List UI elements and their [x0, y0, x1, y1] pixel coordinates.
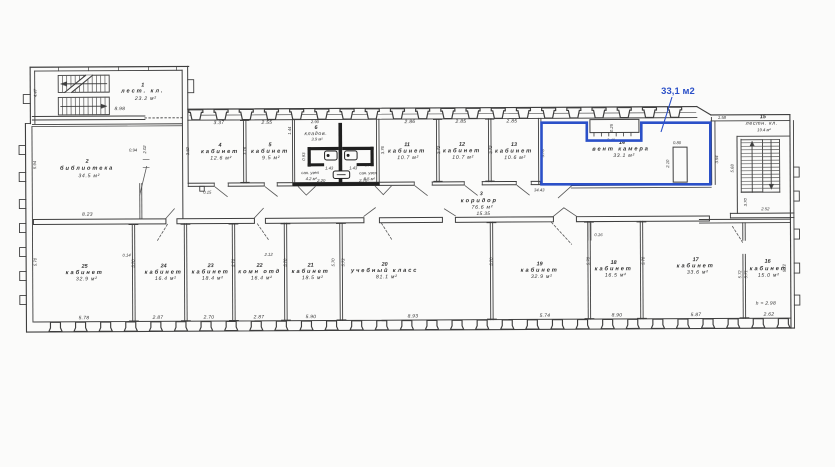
svg-text:2.70: 2.70 [203, 315, 215, 321]
svg-text:18.4 м²: 18.4 м² [202, 276, 224, 282]
svg-text:кабинет: кабинет [251, 148, 289, 155]
top wall right step [697, 106, 711, 115]
stair block 15 bottom wall [730, 212, 793, 214]
svg-text:5.72: 5.72 [782, 263, 787, 272]
svg-text:коридор: коридор [461, 198, 498, 204]
svg-text:кабинет: кабинет [192, 268, 230, 275]
svg-text:5.71: 5.71 [743, 270, 748, 278]
svg-text:8.23: 8.23 [82, 212, 93, 218]
corridor south wall segments [33, 219, 166, 225]
svg-text:34.5 м²: 34.5 м² [78, 173, 100, 179]
svg-text:0.15: 0.15 [203, 190, 212, 195]
svg-text:24: 24 [160, 263, 167, 269]
right rooms top wall [699, 218, 790, 220]
san block bottom thick wall [293, 182, 380, 186]
svg-text:5.74: 5.74 [540, 313, 551, 319]
svg-text:2.52: 2.52 [760, 206, 770, 211]
svg-text:h = 2.98: h = 2.98 [756, 301, 776, 307]
svg-text:3: 3 [480, 191, 483, 197]
stair block 15 west wall [736, 136, 738, 213]
svg-text:кабинет: кабинет [495, 147, 533, 154]
svg-text:2.02: 2.02 [142, 145, 147, 155]
svg-text:0.80: 0.80 [673, 140, 682, 145]
svg-text:5.94: 5.94 [32, 160, 37, 169]
svg-text:3.72: 3.72 [488, 145, 493, 154]
svg-text:5.70: 5.70 [131, 259, 136, 268]
svg-text:20: 20 [381, 262, 388, 268]
svg-text:3.76: 3.76 [242, 146, 247, 155]
south wall door diagonals [166, 209, 175, 219]
svg-text:2.87: 2.87 [152, 315, 164, 321]
library closet door [140, 166, 147, 195]
right outer wall [790, 115, 791, 328]
svg-text:2.85: 2.85 [506, 118, 518, 124]
vent chamber niche box [590, 119, 639, 132]
top room door swings [215, 187, 227, 197]
blue vent chamber outline [542, 123, 711, 185]
svg-text:8.98: 8.98 [114, 106, 125, 112]
partition rooms 4/5 [242, 120, 244, 183]
small pier below wall [200, 186, 205, 191]
svg-text:18: 18 [611, 260, 617, 266]
svg-text:11: 11 [404, 142, 410, 148]
svg-text:2.70: 2.70 [358, 178, 368, 183]
svg-text:23: 23 [207, 263, 214, 269]
svg-text:библиотека: библиотека [60, 165, 114, 172]
svg-text:33.6 м²: 33.6 м² [687, 270, 709, 276]
bottom wall outer line [27, 328, 794, 332]
svg-text:0.25: 0.25 [609, 123, 614, 132]
svg-text:5.70: 5.70 [586, 256, 591, 265]
svg-text:3.9 м²: 3.9 м² [311, 137, 323, 142]
svg-text:1.43: 1.43 [349, 165, 358, 170]
svg-text:5.68: 5.68 [730, 164, 735, 173]
vent chamber column [673, 147, 687, 182]
san uzel door swings [298, 187, 315, 196]
svg-text:12.6 м²: 12.6 м² [210, 155, 232, 161]
stairs room1 lower flight [58, 97, 109, 115]
svg-text:комн отд: комн отд [238, 269, 281, 275]
left wall window notch (stair block) [23, 95, 30, 104]
top-left block right wall [181, 70, 184, 221]
svg-text:32.9 м²: 32.9 м² [531, 274, 553, 280]
library closet partition [139, 183, 141, 218]
svg-text:4.47: 4.47 [33, 88, 38, 97]
main top wall piers [189, 110, 203, 120]
partition rooms 12/13 [487, 119, 489, 182]
svg-text:3.82: 3.82 [185, 146, 190, 155]
svg-text:2.85: 2.85 [455, 119, 467, 125]
left wall window notches [19, 146, 26, 155]
svg-text:сан. узел: сан. узел [359, 170, 377, 175]
sink room 7 [325, 151, 338, 160]
svg-text:кабинет: кабинет [443, 147, 481, 154]
partition room13/vent chamber [537, 118, 539, 184]
svg-text:13: 13 [511, 142, 517, 148]
svg-text:2.20: 2.20 [316, 178, 326, 183]
svg-text:1.44: 1.44 [287, 126, 292, 135]
svg-text:2.55: 2.55 [261, 120, 273, 126]
svg-text:1.43: 1.43 [325, 165, 334, 170]
svg-text:2.87: 2.87 [253, 314, 265, 320]
san block west wall [291, 120, 293, 186]
svg-text:3.94: 3.94 [714, 155, 719, 164]
partition rooms 11/12 [435, 119, 437, 182]
stair block 15 stair top wall [737, 135, 790, 137]
svg-text:22: 22 [256, 263, 263, 269]
svg-text:кабинет: кабинет [595, 265, 633, 272]
svg-text:12: 12 [459, 142, 465, 148]
bottom wall piers [49, 322, 62, 331]
stairs 15 up arrow [751, 143, 753, 192]
svg-text:9.5 м²: 9.5 м² [262, 155, 280, 161]
main top wall inner line [188, 118, 697, 121]
svg-text:5.90: 5.90 [306, 314, 317, 320]
svg-text:4: 4 [218, 143, 222, 149]
svg-text:10.7 м²: 10.7 м² [452, 155, 474, 161]
svg-text:5.87: 5.87 [691, 312, 702, 318]
svg-text:25: 25 [81, 264, 89, 270]
stairs upper flight break band [65, 75, 93, 92]
small jamb marks [587, 223, 589, 240]
svg-text:кабинет: кабинет [292, 268, 330, 275]
main top wall outer line [188, 107, 697, 110]
svg-text:5.70: 5.70 [489, 257, 494, 266]
san block east wall [375, 119, 377, 185]
svg-text:19.4 м²: 19.4 м² [757, 127, 771, 132]
svg-text:16: 16 [765, 259, 772, 265]
stair room 1 bottom wall [32, 115, 144, 118]
svg-text:15: 15 [760, 114, 767, 120]
svg-text:кабинет: кабинет [677, 262, 715, 269]
double door mark room19 [553, 208, 576, 217]
svg-text:2.10: 2.10 [665, 159, 670, 169]
svg-text:кабинет: кабинет [66, 269, 104, 276]
svg-text:16.5 м²: 16.5 м² [605, 273, 627, 279]
svg-text:33.1 м²: 33.1 м² [613, 153, 635, 159]
svg-text:5.72: 5.72 [341, 258, 346, 267]
svg-text:16.4 м²: 16.4 м² [155, 276, 177, 282]
main top wall window lines [190, 113, 696, 116]
bottom partitions [131, 224, 134, 321]
svg-text:5.70: 5.70 [33, 257, 38, 266]
lower center sink [333, 171, 350, 179]
svg-text:кабинет: кабинет [201, 148, 239, 155]
svg-text:1.58: 1.58 [718, 115, 727, 120]
stairs upper flight arrow [63, 83, 107, 85]
svg-text:3.72: 3.72 [436, 145, 441, 154]
svg-text:5.72: 5.72 [737, 270, 742, 279]
library top wall [32, 123, 182, 126]
bottom wall inner line [34, 318, 791, 322]
svg-text:кабинет: кабинет [388, 147, 426, 154]
svg-text:0.16: 0.16 [594, 232, 603, 237]
left outer wall upper (stair block, inset) [29, 67, 31, 123]
svg-text:5.70: 5.70 [641, 256, 646, 265]
svg-text:5.70: 5.70 [331, 258, 336, 267]
kladovaya bottom / stall top thick wall [308, 147, 339, 150]
svg-text:19: 19 [537, 261, 543, 267]
svg-text:3.37: 3.37 [214, 120, 225, 126]
stairs 15 down arrow [770, 140, 772, 187]
right wall window notches [794, 167, 800, 177]
san block center thick wall [338, 123, 342, 186]
svg-text:3.76: 3.76 [380, 145, 385, 154]
svg-text:2.90: 2.90 [310, 119, 320, 124]
right wall notch of block [188, 80, 194, 93]
stall 7 walls [308, 147, 311, 167]
svg-text:23.2 м²: 23.2 м² [134, 96, 157, 102]
vent chamber door swing [558, 186, 571, 198]
svg-text:8.90: 8.90 [612, 312, 623, 318]
svg-text:5.70: 5.70 [283, 258, 288, 267]
corridor north wall under vent chamber [571, 184, 711, 187]
stairs room1 upper flight [58, 75, 109, 92]
svg-text:33,1 м2: 33,1 м2 [661, 85, 695, 96]
svg-text:5.78: 5.78 [79, 315, 90, 321]
svg-text:76.6 м²: 76.6 м² [471, 205, 493, 211]
top-left block top wall [30, 65, 188, 68]
svg-text:15.35: 15.35 [477, 211, 491, 217]
door swing dashes bottom rooms [157, 224, 167, 240]
svg-text:8.93: 8.93 [408, 314, 419, 320]
svg-text:32.9 м²: 32.9 м² [76, 276, 98, 282]
svg-text:лест. кл.: лест. кл. [120, 88, 164, 94]
svg-text:21: 21 [307, 263, 314, 269]
svg-text:2.62: 2.62 [763, 312, 775, 318]
stair room 1 dotted boundary [145, 117, 185, 119]
svg-text:4.2 м²: 4.2 м² [306, 176, 318, 181]
corridor north wall segments [188, 182, 214, 184]
svg-text:лестн. кл.: лестн. кл. [745, 121, 778, 127]
svg-text:0.14: 0.14 [123, 253, 132, 258]
left wall step jog [25, 123, 30, 125]
svg-text:10.6 м²: 10.6 м² [504, 155, 526, 161]
svg-text:16.4 м²: 16.4 м² [251, 275, 273, 281]
svg-text:10: 10 [365, 162, 370, 167]
svg-text:17: 17 [693, 257, 700, 263]
vent chamber east wall [710, 117, 712, 184]
svg-text:0.93: 0.93 [301, 152, 306, 161]
svg-text:2.86: 2.86 [404, 119, 416, 125]
svg-text:2.12: 2.12 [264, 252, 274, 257]
stall 8 walls [370, 147, 373, 167]
svg-text:0.94: 0.94 [129, 147, 138, 152]
svg-text:вент камера: вент камера [592, 146, 650, 152]
left outer wall lower [25, 124, 26, 332]
svg-text:2: 2 [85, 159, 89, 165]
svg-text:34.43: 34.43 [534, 187, 545, 192]
blue leader line [661, 97, 672, 132]
stairs 15 treads [762, 140, 764, 192]
partition 16/17 with door gap [742, 223, 744, 240]
svg-text:учебный класс: учебный класс [350, 267, 418, 274]
svg-text:18.5 м²: 18.5 м² [302, 275, 324, 281]
svg-text:сан. узел: сан. узел [301, 170, 319, 175]
svg-text:3.70: 3.70 [743, 198, 748, 207]
svg-text:кабинет: кабинет [521, 267, 559, 274]
svg-text:10.7 м²: 10.7 м² [397, 155, 419, 161]
svg-text:кабинет: кабинет [145, 269, 183, 276]
svg-text:15.0 м²: 15.0 м² [758, 273, 780, 279]
sink room 8 [345, 151, 358, 160]
svg-text:5.70: 5.70 [231, 258, 236, 267]
svg-text:81.1 м²: 81.1 м² [376, 274, 398, 280]
stairs lower flight arrow [61, 105, 105, 107]
